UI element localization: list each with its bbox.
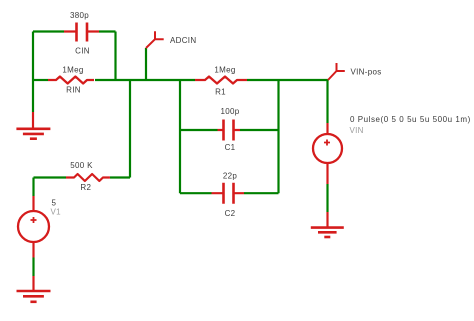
- wire: C2 row right: [244, 192, 279, 194]
- svg-text:VIN: VIN: [350, 126, 364, 135]
- resistor RIN: [48, 77, 94, 84]
- wire: ADCIN vertical to rail: [145, 48, 147, 80]
- svg-text:0 Pulse(0 5 0 5u 5u 500u 1m): 0 Pulse(0 5 0 5u 5u 500u 1m): [350, 115, 471, 124]
- wire: left vertical from CIN loop down through rail: [32, 32, 34, 113]
- ground lead V1: [32, 276, 34, 290]
- svg-text:380p: 380p: [70, 11, 89, 20]
- wire: vertical rail to R2 row: [129, 80, 131, 178]
- wire: C loop left vertical: [179, 80, 181, 193]
- svg-text:V1: V1: [51, 208, 62, 217]
- ground (right, under VIN): [311, 228, 344, 237]
- wire: CIN top wire right part: [99, 30, 116, 32]
- svg-text:ADCIN: ADCIN: [170, 36, 196, 45]
- wire: VIN branch upper vertical: [326, 80, 328, 123]
- svg-text:C2: C2: [225, 209, 236, 218]
- net flag ADCIN: [146, 31, 164, 48]
- ground (left, under RIN node): [16, 129, 50, 139]
- wire: C1 row right: [240, 129, 279, 131]
- svg-text:1Meg: 1Meg: [214, 66, 235, 75]
- wire: R2 row left: [34, 176, 67, 178]
- wire: C loop right vertical: [277, 80, 279, 193]
- wire: C1 row left: [180, 129, 218, 131]
- svg-text:CIN: CIN: [75, 47, 90, 56]
- voltage source V1: [18, 196, 49, 258]
- wire: main rail middle segment (RIN to R1): [95, 79, 195, 81]
- wire: main rail right segment (R1 to VIN-pos node): [247, 79, 328, 81]
- capacitor C2: [212, 183, 245, 204]
- capacitor CIN: [64, 23, 99, 42]
- ground (bottom left, under V1): [17, 291, 51, 302]
- wire: VIN branch lower vertical: [326, 184, 328, 212]
- svg-text:1Meg: 1Meg: [62, 66, 83, 75]
- wire: CIN top wire left part: [33, 30, 64, 32]
- wire: C2 row left: [180, 192, 212, 194]
- wire: CIN loop right vertical: [114, 32, 116, 81]
- svg-text:22p: 22p: [223, 172, 237, 181]
- capacitor C1: [218, 120, 241, 141]
- svg-text:100p: 100p: [221, 107, 240, 116]
- svg-text:R1: R1: [215, 88, 226, 97]
- wire: main rail left segment (node between RIN and left ground): [33, 79, 48, 81]
- wire: R2 row right: [110, 176, 130, 178]
- svg-text:RIN: RIN: [66, 85, 81, 94]
- net flag VIN-pos: [328, 63, 345, 80]
- svg-text:R2: R2: [80, 183, 91, 192]
- voltage source VIN: [313, 123, 342, 184]
- ground lead left: [32, 112, 34, 128]
- resistor R2: [66, 174, 110, 181]
- svg-text:VIN-pos: VIN-pos: [351, 68, 382, 77]
- svg-text:5: 5: [52, 199, 57, 208]
- svg-text:500 K: 500 K: [70, 161, 93, 170]
- resistor R1: [195, 77, 247, 84]
- ground lead VIN: [326, 212, 328, 227]
- svg-text:C1: C1: [225, 143, 236, 152]
- wire: V1 branch bottom vertical: [32, 258, 34, 277]
- wire: V1 branch top vertical: [32, 178, 34, 197]
